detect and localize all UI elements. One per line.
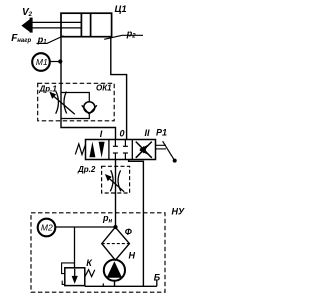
valve spring [75, 144, 85, 155]
cylinder C1 barrel [61, 13, 112, 37]
wire B: cylinder rod port to valve port B [111, 37, 127, 140]
check valve branch wires [61, 93, 89, 102]
wire M1 to node [50, 61, 60, 63]
wire M2 to node p_n [55, 226, 115, 228]
piston rod [31, 22, 81, 28]
filter F diamond [102, 227, 130, 260]
tank B side walls [102, 283, 104, 286]
svg-text:II: II [144, 128, 150, 138]
svg-text:Др.1: Др.1 [39, 85, 58, 94]
svg-text:Ц1: Ц1 [115, 4, 127, 15]
relief valve K branch wire [74, 227, 76, 269]
throttle Dr.2 dashed box [102, 166, 130, 193]
relief valve K outlet / tank bottom manifold [85, 285, 157, 287]
gauge M1 [32, 53, 50, 71]
throttle Dr.1 arrow [54, 97, 75, 115]
throttle Dr.1 arcs [56, 92, 59, 114]
relief valve K arrow [74, 269, 76, 277]
relief valve K pilot line [62, 263, 75, 274]
svg-text:Др.2: Др.2 [77, 165, 96, 174]
force arrow F_nagr [21, 19, 30, 32]
position I arrows [89, 142, 95, 158]
wire P: valve to pump node [115, 160, 117, 228]
pump suction wire [114, 281, 116, 286]
check valve OK1 [84, 102, 95, 113]
svg-text:Б: Б [154, 273, 161, 283]
svg-text:М1: М1 [36, 57, 48, 67]
throttle Dr.2 arrow [110, 179, 124, 192]
relief valve K body [65, 268, 85, 286]
svg-text:Н: Н [129, 251, 136, 261]
throttle-check unit dashed box [38, 83, 115, 121]
valve lever [156, 144, 167, 146]
valve P1 body [86, 140, 156, 160]
svg-text:НУ: НУ [172, 206, 185, 216]
wire T: valve to tank [129, 160, 144, 287]
svg-text:P1: P1 [156, 128, 167, 138]
svg-text:М2: М2 [41, 222, 53, 232]
svg-text:0: 0 [119, 129, 124, 139]
svg-text:ОК1: ОК1 [96, 84, 112, 93]
piston [80, 13, 82, 37]
pump unit NU dashed box [31, 213, 165, 292]
throttle Dr.2 arcs [110, 170, 113, 191]
position 0 blocked ports [113, 140, 128, 160]
relief valve K spring [85, 270, 95, 277]
gauge M2 [38, 219, 56, 237]
svg-text:Ф: Ф [125, 227, 132, 237]
position II crossed arrows [136, 142, 152, 158]
pump N [104, 260, 125, 281]
wire A: cylinder left port to valve port A [61, 37, 116, 140]
node p_n dot [113, 225, 117, 229]
node junction dot [58, 59, 62, 63]
